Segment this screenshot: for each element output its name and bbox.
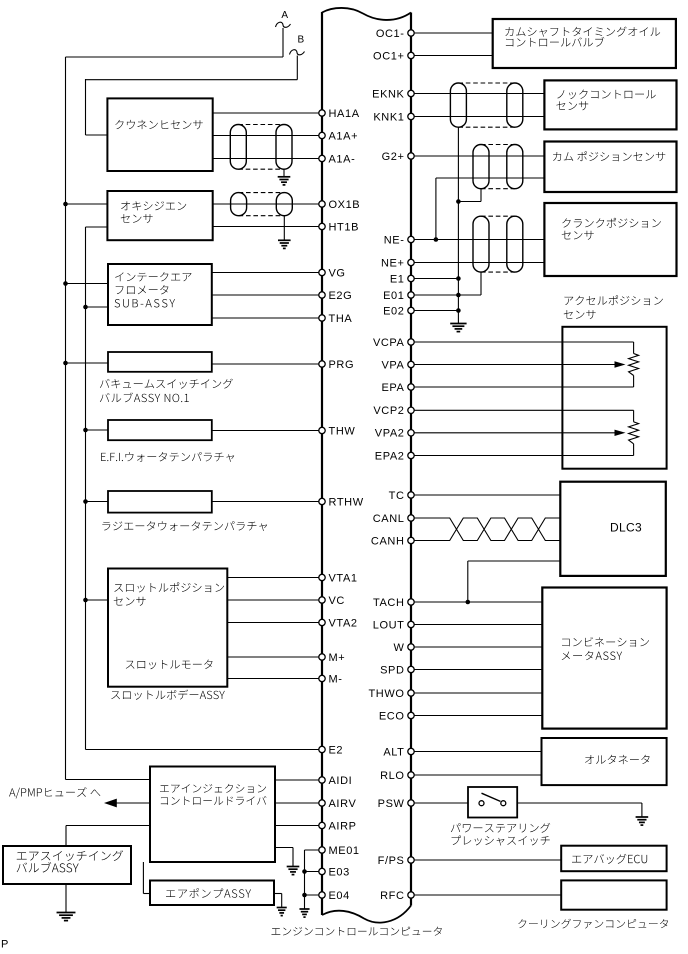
svg-text:A1A-: A1A- [329,153,356,165]
svg-text:W: W [394,642,405,654]
svg-text:E2: E2 [329,744,344,756]
svg-text:RLO: RLO [380,770,404,782]
svg-text:OX1B: OX1B [329,199,361,211]
svg-text:LOUT: LOUT [373,619,405,631]
svg-text:ME01: ME01 [329,845,360,857]
svg-text:VTA2: VTA2 [329,617,358,629]
svg-text:EPA: EPA [382,382,405,394]
svg-text:VPA2: VPA2 [375,428,405,440]
svg-text:OC1-: OC1- [376,28,405,40]
svg-text:VTA1: VTA1 [329,572,358,584]
svg-text:E04: E04 [329,890,350,902]
svg-text:PSW: PSW [378,798,405,810]
svg-text:G2+: G2+ [382,151,405,163]
svg-text:VCPA: VCPA [373,337,405,349]
svg-text:THA: THA [329,313,353,325]
svg-text:F/PS: F/PS [378,855,405,867]
svg-text:E02: E02 [383,305,404,317]
svg-text:VC: VC [329,595,345,607]
svg-text:EPA2: EPA2 [375,450,405,462]
svg-text:RFC: RFC [380,890,404,902]
svg-text:OC1+: OC1+ [373,50,404,62]
svg-text:ECO: ECO [379,710,405,722]
svg-text:E2G: E2G [329,290,353,302]
svg-text:NE+: NE+ [381,257,405,269]
svg-text:E03: E03 [329,866,350,878]
svg-text:M-: M- [329,673,343,685]
svg-text:NE-: NE- [384,234,405,246]
svg-text:DLC3: DLC3 [610,521,642,535]
svg-text:A1A+: A1A+ [329,130,359,142]
svg-text:EKNK: EKNK [372,88,404,100]
svg-text:VG: VG [329,267,346,279]
svg-text:PRG: PRG [329,359,355,371]
svg-text:VCP2: VCP2 [373,405,404,417]
svg-text:THW: THW [329,425,356,437]
svg-text:CANH: CANH [371,535,405,547]
svg-text:B: B [297,35,304,46]
svg-text:ALT: ALT [383,746,404,758]
svg-text:E01: E01 [383,290,404,302]
svg-text:RTHW: RTHW [329,496,364,508]
svg-text:HT1B: HT1B [329,221,360,233]
svg-text:AIRV: AIRV [329,798,357,810]
svg-text:VPA: VPA [382,359,405,371]
svg-text:KNK1: KNK1 [373,111,404,123]
svg-text:AIDI: AIDI [329,775,353,787]
svg-text:TC: TC [389,490,405,502]
svg-text:THWO: THWO [368,688,404,700]
svg-text:AIRP: AIRP [329,820,357,832]
svg-text:SPD: SPD [380,664,404,676]
svg-text:E1: E1 [390,273,405,285]
svg-text:TACH: TACH [373,597,405,609]
svg-text:A: A [281,10,288,21]
svg-text:HA1A: HA1A [329,108,360,120]
svg-text:P: P [1,939,8,950]
svg-text:M+: M+ [329,652,346,664]
svg-text:CANL: CANL [373,513,405,525]
